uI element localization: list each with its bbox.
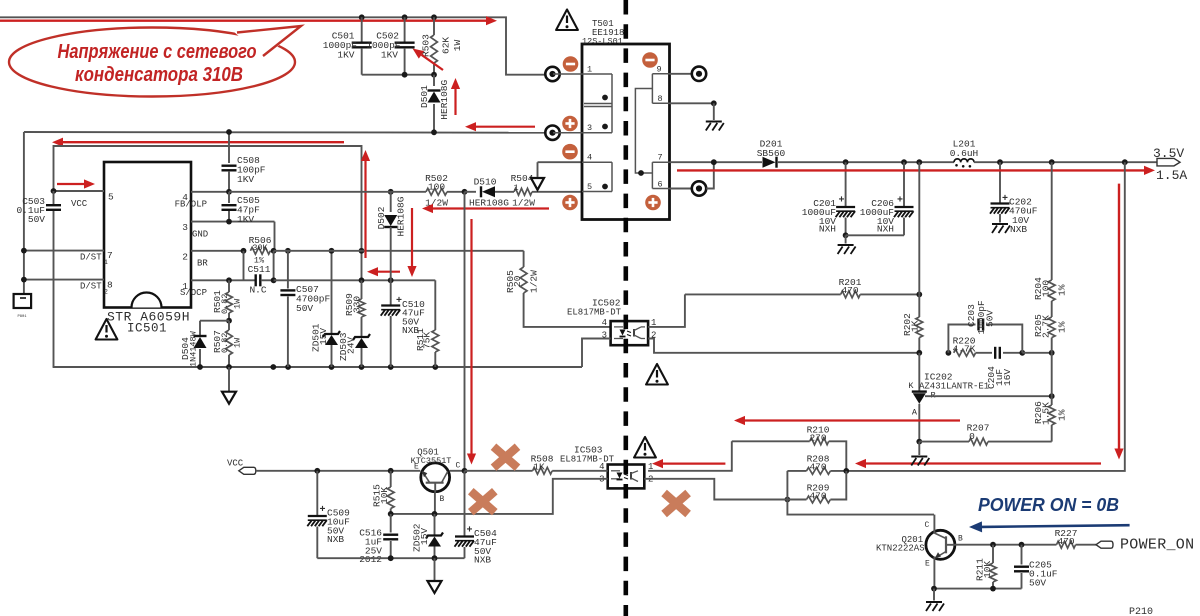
capacitor C504 47uF (455, 471, 498, 566)
svg-text:BR: BR (197, 259, 208, 269)
wire feedback rail right (1022, 350, 1054, 356)
svg-text:6: 6 (658, 180, 663, 190)
node junction dots on top bus (359, 14, 437, 20)
wire pin5 VCC (51, 188, 114, 209)
wire inner startup rail (54, 146, 362, 280)
svg-text:3: 3 (587, 123, 592, 133)
svg-text:+: + (320, 505, 326, 516)
warning triangle below IC502 (646, 364, 668, 385)
svg-text:1.5A: 1.5A (1156, 168, 1187, 183)
red diagonal arrow toward C502 (413, 49, 444, 71)
resistor R210 270 (732, 425, 847, 471)
svg-text:270: 270 (809, 433, 826, 444)
svg-text:0.82: 0.82 (220, 333, 230, 353)
svg-text:NXB: NXB (1010, 224, 1027, 235)
svg-text:470: 470 (841, 285, 858, 296)
svg-text:D502: D502 (376, 206, 387, 229)
resistor R507 0.82 1W (212, 321, 243, 367)
svg-text:D510: D510 (474, 177, 497, 188)
svg-text:1: 1 (587, 65, 592, 75)
optocoupler IC503 EL817MB-DT body (560, 445, 644, 489)
wire link under C501 C502 R503 (362, 72, 437, 78)
wire S/OCP rail (226, 277, 435, 283)
svg-text:100: 100 (1041, 280, 1052, 297)
svg-text:50V: 50V (296, 303, 313, 314)
svg-text:10K: 10K (982, 561, 993, 578)
svg-text:1W: 1W (452, 39, 463, 51)
svg-text:конденсатора 310В: конденсатора 310В (75, 64, 243, 86)
resistor R511 75K (415, 280, 439, 367)
inductor L201 0.6uH (950, 139, 979, 168)
red arrow left below D510 (422, 204, 549, 213)
optocoupler IC502 internals (614, 327, 645, 339)
svg-text:K: K (908, 381, 914, 391)
svg-text:D/ST: D/ST (80, 282, 102, 292)
svg-text:0.82: 0.82 (220, 294, 230, 314)
polarity plus low left (562, 195, 578, 211)
polarity minus mid left (562, 144, 578, 160)
wire pin1 S/OCP (180, 280, 244, 298)
resistor R211 10K (975, 545, 997, 589)
terminal to transformer pin3 (545, 126, 559, 140)
label IC502 pins (602, 318, 657, 341)
svg-text:D501: D501 (419, 85, 430, 108)
resistor R206 1.5K 1% (1033, 353, 1068, 442)
svg-text:16V: 16V (1002, 369, 1013, 386)
svg-text:1: 1 (104, 259, 108, 266)
red long arrow left above R210 (734, 416, 960, 425)
connector VCC (227, 459, 256, 475)
capacitor C507 (280, 248, 330, 367)
polarity plus mid left (562, 116, 578, 132)
svg-text:1%: 1% (1057, 284, 1068, 296)
resistor R515 10K (372, 471, 395, 517)
connector 3.5V output (1153, 146, 1187, 183)
svg-text:24V: 24V (346, 337, 357, 354)
svg-text:HER108G: HER108G (469, 198, 509, 209)
svg-text:Напряжение с сетевого: Напряжение с сетевого (58, 41, 257, 63)
svg-text:1W: 1W (233, 298, 243, 309)
svg-text:62K: 62K (441, 37, 452, 54)
wire main primary bus (24, 129, 545, 135)
svg-text:50V: 50V (1029, 578, 1046, 589)
svg-text:1/2W: 1/2W (529, 270, 540, 293)
red long arrow down right side (1114, 184, 1123, 460)
node dots on output rail (843, 159, 1128, 165)
capacitor C503 (16, 191, 61, 367)
svg-text:NXB: NXB (327, 534, 344, 545)
wire IC502 pin2 to feedback rail (648, 339, 919, 353)
svg-text:B: B (440, 495, 445, 504)
svg-text:P801: P801 (17, 315, 27, 319)
transformer aux winding pins 4-5 (582, 153, 612, 193)
svg-text:SB560: SB560 (757, 148, 786, 159)
terminal pin6 (670, 181, 707, 195)
svg-text:10K: 10K (379, 487, 390, 504)
wire pin2 BR (182, 251, 243, 269)
svg-text:1%: 1% (1057, 321, 1068, 333)
wire BR rail extension (274, 250, 524, 252)
svg-text:E: E (925, 560, 930, 569)
resistor R501 0.82 1W (212, 280, 243, 323)
ground cold primary (222, 367, 236, 404)
ground cold Q501 (428, 558, 442, 593)
red arrow left into R208 node (855, 459, 1101, 468)
svg-text:470: 470 (1057, 536, 1074, 547)
svg-text:2: 2 (104, 288, 108, 295)
label POWER ON = 0B (978, 495, 1119, 515)
label T501 (582, 19, 624, 47)
wire Q201 emitter rail (931, 557, 1021, 592)
svg-text:NXH: NXH (819, 224, 836, 235)
ground chassis C201 C206 (838, 235, 856, 254)
wire FB to R502 line (229, 191, 391, 193)
svg-text:5: 5 (587, 182, 592, 192)
red arrow up beside D501 (451, 78, 460, 115)
transformer secondary winding pins 9-8 (652, 65, 669, 105)
svg-text:NXH: NXH (877, 224, 894, 235)
svg-text:1: 1 (513, 183, 518, 193)
svg-text:A: A (912, 408, 918, 418)
red arrow left above main bus (465, 122, 535, 131)
resistor R508 1K (465, 454, 608, 475)
wire pin8 to ground (670, 100, 717, 120)
svg-text:1KV: 1KV (337, 50, 354, 61)
diode D504 1N4148W (180, 321, 229, 367)
wire pin7 D/ST1 (21, 248, 113, 266)
wire right feedback drop (846, 162, 1125, 471)
polarity minus top right (642, 52, 658, 68)
resistor R504 1 1/2W (511, 173, 582, 209)
svg-text:8: 8 (658, 94, 663, 104)
wire IC503 pin3 path (391, 479, 608, 514)
capacitor C508 (222, 129, 266, 192)
resistor R505 20 1/2W (505, 251, 611, 327)
label P210 (1129, 607, 1153, 616)
svg-text:15V: 15V (318, 328, 329, 345)
svg-text:1/2W: 1/2W (512, 198, 535, 209)
svg-text:20: 20 (512, 275, 523, 287)
wire pin3 GND (182, 222, 274, 251)
wire Q501 bottom rail (317, 555, 464, 561)
svg-text:GND: GND (192, 229, 208, 239)
svg-text:5: 5 (108, 192, 114, 203)
wire pin8 D/ST2 (21, 277, 113, 296)
resistor R227 470 (1055, 528, 1096, 548)
capacitor C204 1uF 16V (976, 347, 1026, 389)
connector P801 (14, 294, 32, 319)
svg-text:0: 0 (969, 431, 975, 442)
svg-text:POWER_ON: POWER_ON (1120, 537, 1194, 554)
optocoupler IC502 EL817MB-DT body (567, 298, 648, 346)
svg-text:HER108G: HER108G (396, 196, 407, 236)
diode D501 HER108G (419, 75, 450, 132)
resistor R503 (421, 17, 463, 74)
svg-text:1W: 1W (233, 337, 243, 348)
op-amp U1 IC501 STR_A6059H body (104, 162, 191, 308)
svg-text:+: + (467, 526, 473, 537)
speech bubble voltage note (9, 26, 301, 97)
resistor R502 100 1/2W (391, 173, 465, 209)
zener ZD503 24V (338, 317, 370, 367)
capacitor C205 0.1uF (1014, 545, 1058, 589)
ground chassis IC202 (911, 442, 929, 466)
warning triangle near T501 (556, 10, 578, 31)
svg-text:N.C: N.C (249, 285, 266, 296)
terminal to transformer pin1 (545, 67, 559, 81)
svg-text:HER108G: HER108G (439, 79, 450, 119)
svg-text:4: 4 (602, 318, 607, 328)
wire left outer drain rail (23, 132, 25, 294)
svg-text:470: 470 (809, 462, 826, 473)
capacitor C202 470uF (990, 162, 1038, 235)
resistor R202 1K (902, 294, 923, 355)
red X mark lower (471, 491, 495, 512)
svg-text:75K: 75K (422, 332, 433, 349)
svg-text:1.5K: 1.5K (1041, 402, 1052, 425)
svg-text:+: + (1002, 194, 1008, 205)
wire IC503 pin1 riser (648, 441, 732, 471)
resistor R509 330 (344, 277, 365, 317)
wire pin4 FB/OLP (175, 192, 229, 210)
svg-text:NXB: NXB (474, 555, 491, 566)
svg-text:2012: 2012 (359, 554, 382, 565)
arrow symbol to transformer pin4 (531, 162, 582, 190)
svg-text:VCC: VCC (71, 199, 88, 209)
svg-text:1K: 1K (533, 462, 545, 473)
wire IC502 pin3 to ground bus (582, 339, 611, 368)
wire primary ground bus (53, 364, 582, 370)
capacitor C509 10uF (307, 471, 350, 558)
resistor R201 470 (685, 277, 922, 298)
ground chassis pin8 (706, 122, 724, 131)
svg-text:3: 3 (182, 222, 188, 233)
svg-text:7: 7 (658, 153, 663, 163)
svg-text:4: 4 (587, 153, 592, 163)
zener ZD501 15V (311, 251, 341, 367)
transistor Q2 Q201 KTN2222AS (876, 521, 963, 569)
capacitor C206 1000uF (846, 162, 914, 235)
polarity plus bottom right (645, 195, 661, 211)
red arrow left above C510 (367, 267, 400, 276)
svg-text:30K: 30K (252, 243, 268, 253)
svg-text:FB/OLP: FB/OLP (175, 200, 207, 210)
wire IC503 pin2 path (644, 479, 787, 500)
svg-text:+: + (839, 196, 845, 207)
capacitor C203 1000pF bypass (948, 300, 1022, 353)
wire drop from D510 junction to Q501 (464, 192, 466, 471)
svg-text:50V: 50V (28, 214, 45, 225)
wire Q201 collector (933, 515, 935, 534)
capacitor C502 (366, 17, 414, 74)
svg-text:C: C (456, 462, 461, 471)
wire secondary sense drop (918, 162, 920, 294)
polarity minus top left (563, 56, 579, 72)
isolation dashed line (623, 0, 628, 616)
svg-text:50V: 50V (985, 310, 996, 327)
svg-text:2.7K: 2.7K (1041, 315, 1052, 338)
capacitor C201 1000uF (802, 162, 855, 238)
ground chassis C202 (992, 224, 1010, 233)
wire R208 left node drop (787, 471, 934, 515)
transformer T501 body (582, 44, 670, 220)
wire output rail to connector (974, 161, 1157, 163)
svg-text:EL817MB-DT: EL817MB-DT (567, 308, 622, 318)
svg-text:3.5V: 3.5V (1153, 146, 1184, 161)
svg-text:1N4148W: 1N4148W (189, 330, 199, 367)
wire IC502 pin1 to R201 (648, 294, 685, 327)
svg-text:330: 330 (352, 296, 363, 313)
node BR rail crossing dots (329, 248, 365, 254)
resistor R207 0 (916, 423, 1051, 446)
diode D510 HER108G (465, 177, 515, 209)
red long arrow down to Q501 collector (467, 219, 476, 465)
wire pin6 up to rail (706, 162, 714, 188)
svg-text:D/ST: D/ST (80, 252, 102, 262)
transformer primary winding pins 1-3 (553, 65, 612, 134)
wire IC202 ref line (925, 393, 1055, 399)
capacitor C505 (222, 189, 261, 225)
svg-text:B: B (958, 535, 963, 544)
svg-text:C: C (925, 521, 930, 530)
shunt regulator IC202 AZ431 (908, 353, 989, 442)
red arrow output current (677, 166, 1155, 175)
svg-text:1K: 1K (910, 320, 921, 332)
transistor Q2 Q501 KTC3551T (411, 448, 461, 505)
svg-text:EL817MB-DT: EL817MB-DT (560, 455, 615, 465)
red arrow right into pin5 (57, 179, 95, 188)
red arrow left mid rail (52, 138, 344, 147)
svg-text:P210: P210 (1129, 607, 1153, 616)
blue arrow power on (969, 521, 1130, 532)
red annotation arrow right along top bus (0, 16, 497, 25)
resistor R220 4.7K (946, 336, 976, 357)
connector POWER_ON (1096, 537, 1194, 554)
svg-text:4.7K: 4.7K (953, 344, 976, 355)
svg-text:15V: 15V (419, 528, 430, 545)
svg-text:12S-LS01: 12S-LS01 (582, 37, 623, 47)
red arrow up beside R509 (361, 150, 370, 258)
svg-text:2: 2 (182, 251, 188, 262)
svg-text:+: + (897, 196, 903, 207)
red X mark IC503 (664, 493, 688, 514)
diode D201 SB560 (757, 139, 954, 168)
capacitor C511 N.C (244, 251, 277, 296)
resistor R209 470 (785, 471, 847, 503)
svg-text:VCC: VCC (227, 459, 244, 469)
svg-text:E: E (414, 463, 419, 472)
resistor R205 2.7K 1% (1033, 314, 1068, 353)
svg-text:POWER ON = 0B: POWER ON = 0B (978, 495, 1119, 515)
svg-text:0.6uH: 0.6uH (950, 148, 979, 159)
svg-text:1KV: 1KV (381, 50, 398, 61)
ground chassis Q201 (926, 589, 944, 611)
red arrow left into IC503 pin1 (652, 459, 725, 468)
svg-text:1%: 1% (1057, 409, 1068, 421)
label IC503 pins (599, 462, 653, 485)
transformer secondary winding pins 7-6 (652, 153, 669, 190)
capacitor C501 (323, 17, 372, 74)
red X mark upper (494, 447, 518, 468)
warning triangle near IC501 (96, 319, 118, 340)
optocoupler IC503 internals (611, 471, 638, 482)
svg-text:470: 470 (809, 491, 826, 502)
svg-text:S/OCP: S/OCP (180, 288, 207, 298)
node R502 D510 junction (462, 189, 468, 195)
wire Q201 base rail (955, 542, 1057, 548)
wire pin7 output rail (670, 159, 763, 165)
svg-text:1KV: 1KV (237, 214, 254, 225)
svg-text:1KV: 1KV (237, 174, 254, 185)
capacitor C516 1uF (359, 514, 398, 565)
wire upper divider drop (1051, 162, 1053, 280)
resistor R506 30K (241, 235, 277, 266)
zener ZD502 15V (412, 514, 444, 558)
red arrow down to C510 rail (407, 208, 416, 277)
wire top mains bus (0, 17, 545, 74)
warning triangle above IC503 (634, 437, 656, 458)
label IC501 name (107, 310, 190, 336)
wire Q501 collector to R508 (450, 468, 468, 474)
svg-text:C511: C511 (248, 264, 271, 275)
wire Q501 base drop (432, 493, 438, 517)
wire VCC rail (256, 468, 420, 474)
svg-text:IC501: IC501 (127, 322, 167, 336)
svg-text:100: 100 (428, 182, 445, 193)
capacitor C510 47uF electrolytic (381, 277, 425, 367)
terminal pin9 (670, 67, 707, 81)
svg-text:AZ431LANTR-E1: AZ431LANTR-E1 (919, 382, 989, 392)
resistor R204 100 1% (1033, 277, 1068, 317)
resistor R208 470 (787, 454, 849, 475)
svg-text:KTN2222AS: KTN2222AS (876, 544, 925, 554)
svg-text:9: 9 (657, 65, 662, 75)
diode D502 HER108G (376, 189, 407, 280)
transformer internal link (635, 89, 652, 176)
